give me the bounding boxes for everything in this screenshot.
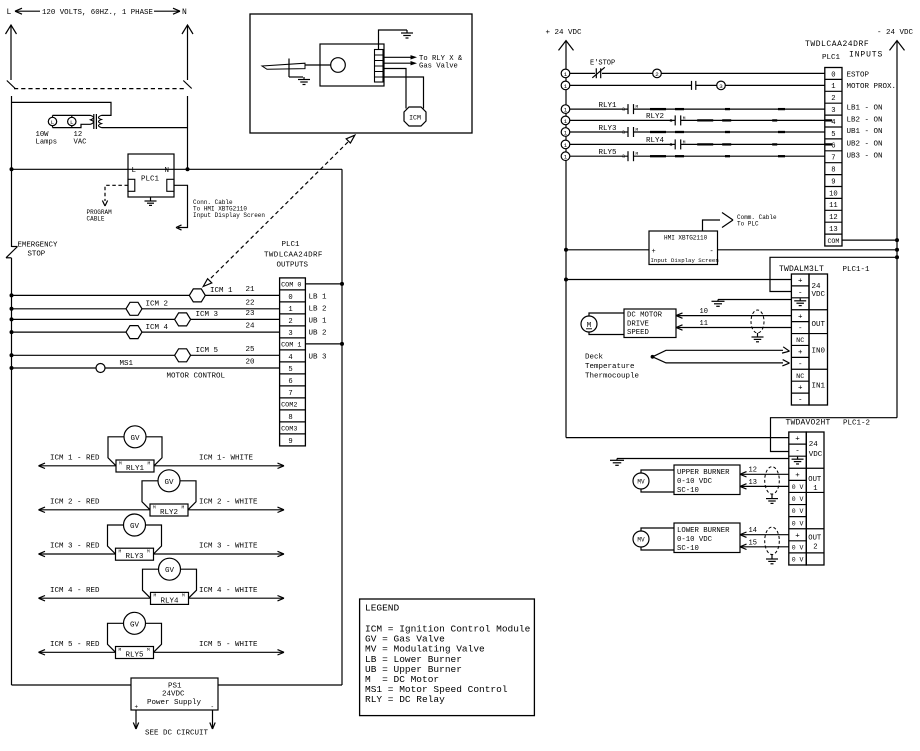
- svg-text:0-10 VDC: 0-10 VDC: [677, 536, 713, 544]
- svg-text:RLY3: RLY3: [125, 553, 144, 561]
- svg-text:IN0: IN0: [812, 347, 826, 355]
- svg-text:OUT: OUT: [808, 535, 822, 543]
- wire +24 rail to AVO plus: [566, 437, 789, 439]
- svg-text:ICM 2 - RED: ICM 2 - RED: [50, 499, 100, 507]
- svg-text:+ 24 VDC: + 24 VDC: [546, 29, 583, 37]
- node circled 3: [717, 81, 726, 90]
- svg-text:21: 21: [246, 286, 256, 294]
- wire ICM 5 - WHITE: [154, 651, 285, 653]
- svg-text:+: +: [798, 349, 803, 357]
- wire 15 to module: [740, 546, 789, 548]
- transformer T1 core: [93, 114, 95, 129]
- terminal strip PLC1 outputs: [280, 278, 306, 446]
- wire outputs common riser: [341, 169, 343, 685]
- wire ICM 2 - RED: [39, 509, 151, 511]
- svg-text:RLY2: RLY2: [160, 509, 178, 517]
- svg-text:TWDALM3LT: TWDALM3LT: [779, 265, 824, 274]
- analog module TWDALM3LT label column: [809, 274, 828, 405]
- svg-text:+: +: [795, 532, 800, 540]
- svg-text:0: 0: [288, 294, 292, 302]
- svg-text:4: 4: [831, 119, 835, 127]
- wire MV bottom UPPER BURNER: [641, 489, 674, 492]
- svg-text:3: 3: [288, 330, 292, 338]
- shield ellipse UPPER BURNER: [765, 467, 780, 494]
- svg-text:RLY1: RLY1: [126, 465, 145, 473]
- wire PROGRAM CABLE dashed: [105, 185, 128, 201]
- ICM hexagon ICM 5: [175, 349, 191, 362]
- relay contact RLY2: [674, 115, 676, 125]
- svg-text:M: M: [147, 647, 150, 653]
- node junction L rail: [10, 167, 14, 171]
- svg-text:UB 2: UB 2: [309, 330, 327, 338]
- ground motor cable shield: [757, 333, 759, 337]
- wire ALM out plus 10: [676, 315, 791, 317]
- svg-text:+: +: [798, 278, 803, 286]
- svg-text:11: 11: [700, 320, 708, 328]
- wire PS1 positive lead: [135, 710, 137, 729]
- svg-text:ICM 2: ICM 2: [146, 301, 169, 309]
- gas valve GV loop RLY3: [108, 525, 124, 554]
- svg-text:NC: NC: [796, 337, 804, 345]
- svg-text:1: 1: [564, 71, 568, 78]
- svg-text:Power Supply: Power Supply: [147, 699, 202, 707]
- svg-text:L: L: [132, 167, 137, 175]
- svg-text:0 V: 0 V: [792, 544, 804, 551]
- svg-text:14: 14: [749, 527, 757, 535]
- svg-text:20: 20: [246, 359, 256, 367]
- wire L rail: [11, 96, 13, 247]
- burner box UPPER BURNER: [674, 465, 740, 495]
- svg-text:GV: GV: [130, 621, 140, 629]
- svg-text:RLY5: RLY5: [599, 149, 618, 157]
- wire MV top LOWER BURNER: [641, 528, 674, 531]
- wire input RLY5: [570, 155, 628, 157]
- svg-text:120 VOLTS, 60HZ., 1 PHASE: 120 VOLTS, 60HZ., 1 PHASE: [42, 9, 153, 17]
- svg-text:ICM 1- WHITE: ICM 1- WHITE: [199, 455, 254, 463]
- svg-text:Input Display Screen: Input Display Screen: [193, 212, 265, 219]
- wire motor to drive top: [589, 313, 624, 316]
- relay contact RLY1: [627, 104, 629, 114]
- relay coil RLY5: [116, 647, 154, 659]
- svg-text:DC MOTOR: DC MOTOR: [627, 312, 663, 320]
- svg-text:M: M: [154, 593, 157, 599]
- wire input RLY4: [570, 143, 675, 145]
- svg-text:GV: GV: [130, 435, 140, 443]
- svg-text:0 V: 0 V: [792, 508, 804, 515]
- wire input row 1 MOTOR PROX: [570, 84, 692, 86]
- svg-text:1: 1: [564, 118, 568, 125]
- svg-text:LB2 - ON: LB2 - ON: [847, 117, 883, 125]
- svg-text:RLY1: RLY1: [599, 102, 618, 110]
- svg-text:7: 7: [288, 390, 292, 398]
- gas valve GV circle RLY2: [158, 470, 180, 492]
- terminal strip PLC1 inputs: [825, 68, 842, 247]
- wire lamp feed: [12, 102, 112, 115]
- wire left box bottom: [12, 684, 132, 686]
- svg-text:+: +: [798, 385, 803, 393]
- svg-text:1: 1: [564, 142, 568, 149]
- legend box: [360, 599, 535, 716]
- wire -24 rail to AVO minus: [771, 418, 898, 452]
- svg-text:L: L: [7, 8, 12, 17]
- svg-text:LOWER BURNER: LOWER BURNER: [677, 527, 730, 535]
- svg-text:1: 1: [564, 130, 568, 137]
- analog module TWDALM3LT terminal strip: [791, 274, 809, 405]
- svg-text:3: 3: [719, 83, 723, 90]
- wire break L: [7, 81, 15, 89]
- svg-text:+: +: [135, 704, 139, 711]
- svg-text:24: 24: [246, 323, 256, 331]
- HMI XBTG2110 display: [649, 231, 718, 265]
- wire ICM 3 - RED: [39, 553, 116, 555]
- svg-text:PLC1: PLC1: [822, 54, 841, 62]
- svg-text:+: +: [798, 313, 803, 321]
- gas valve GV loop RLY5: [108, 623, 124, 652]
- wire lamp bus top: [53, 114, 91, 116]
- switch EMERGENCY STOP: [12, 246, 18, 248]
- wire input RLY1: [570, 108, 628, 110]
- transformer T1 secondary winding: [91, 115, 94, 124]
- node junction N rail: [186, 167, 190, 171]
- ground shield UPPER BURNER: [771, 494, 773, 499]
- svg-text:6: 6: [288, 378, 292, 386]
- svg-text:5: 5: [288, 366, 292, 374]
- svg-text:OUT: OUT: [808, 476, 822, 484]
- svg-text:VDC: VDC: [812, 291, 826, 299]
- svg-text:PLC1-1: PLC1-1: [843, 266, 871, 274]
- igniter circle: [331, 58, 346, 73]
- svg-text:Input Display Screen: Input Display Screen: [651, 257, 719, 264]
- svg-text:RLY2: RLY2: [646, 113, 664, 121]
- relay contact RLY4: [674, 139, 676, 149]
- ground PLC1: [150, 197, 152, 201]
- wire lamp bus bottom: [53, 124, 91, 127]
- wire input RLY2: [570, 119, 675, 121]
- node +24VDC rail arrow: [559, 41, 574, 51]
- svg-text:M: M: [119, 460, 122, 466]
- svg-text:NC: NC: [796, 373, 804, 381]
- svg-text:0 V: 0 V: [792, 484, 804, 491]
- connector strip inset: [375, 50, 384, 83]
- svg-text:1: 1: [813, 485, 817, 493]
- svg-text:MS1: MS1: [120, 360, 134, 368]
- terminal circle RLY4: [561, 140, 570, 149]
- svg-text:5: 5: [831, 131, 835, 139]
- svg-text:Gas Valve: Gas Valve: [419, 62, 458, 70]
- ICM module octagon inset: [404, 107, 426, 126]
- svg-text:RLY3: RLY3: [599, 125, 618, 133]
- svg-text:LB 2: LB 2: [309, 306, 327, 314]
- wire to RLY X arrow: [383, 56, 411, 58]
- wire MV bottom LOWER BURNER: [641, 547, 674, 550]
- svg-text:1: 1: [288, 306, 292, 314]
- svg-text:CABLE: CABLE: [87, 216, 105, 223]
- wire -24VDC rail: [896, 41, 898, 418]
- wire ICM 4 - RED: [39, 597, 151, 599]
- svg-text:UB1 - ON: UB1 - ON: [847, 128, 883, 136]
- svg-text:12: 12: [829, 214, 838, 222]
- svg-text:0: 0: [831, 71, 835, 79]
- svg-text:UB 3: UB 3: [309, 354, 328, 362]
- svg-text:12: 12: [749, 467, 757, 475]
- wire AVO ground: [617, 458, 789, 460]
- wire 120V main run: [12, 168, 343, 170]
- svg-text:EMERGENCY: EMERGENCY: [18, 242, 58, 250]
- svg-text:VDC: VDC: [809, 451, 823, 459]
- wire ICM 1- WHITE: [154, 465, 284, 467]
- svg-text:L: L: [70, 119, 73, 126]
- svg-text:-: -: [798, 361, 803, 369]
- wire RLY4 to input: [681, 143, 825, 145]
- wire 13 to module: [740, 485, 789, 487]
- svg-text:10: 10: [700, 308, 708, 316]
- svg-text:SC-10: SC-10: [677, 487, 699, 495]
- wire ICM 5 - RED: [39, 651, 116, 653]
- svg-text:TWDLCAA24DRF: TWDLCAA24DRF: [264, 252, 323, 260]
- svg-text:25: 25: [246, 346, 256, 354]
- svg-text:22: 22: [246, 299, 255, 307]
- svg-text:MV: MV: [637, 537, 645, 544]
- wire ALM out minus 11: [676, 327, 791, 329]
- svg-text:RLY = DC Relay: RLY = DC Relay: [365, 694, 445, 705]
- transformer T1 primary winding: [99, 115, 102, 127]
- gas valve GV circle RLY5: [124, 612, 146, 634]
- svg-text:9: 9: [831, 178, 835, 186]
- svg-text:ICM 2 - WHITE: ICM 2 - WHITE: [199, 499, 258, 507]
- wire ICM 3 - WHITE: [154, 553, 285, 555]
- ground AVO external: [616, 459, 618, 461]
- svg-text:UPPER BURNER: UPPER BURNER: [677, 469, 730, 477]
- svg-text:ICM 3 - RED: ICM 3 - RED: [50, 543, 100, 551]
- shield ellipse LOWER BURNER: [765, 527, 780, 554]
- svg-text:2: 2: [655, 71, 659, 78]
- svg-text:ICM 4 - RED: ICM 4 - RED: [50, 587, 100, 595]
- igniter electrode probe: [305, 64, 331, 66]
- wire output ICM 5: [12, 354, 280, 356]
- switch E'STOP NC contact: [595, 68, 597, 78]
- wire -24 to ALM minus: [770, 257, 897, 291]
- connector PLC1 program port: [128, 179, 135, 191]
- svg-text:LB1 - ON: LB1 - ON: [847, 105, 883, 113]
- svg-text:COM2: COM2: [281, 402, 297, 410]
- svg-text:-: -: [798, 325, 803, 333]
- svg-text:COM 0: COM 0: [281, 282, 301, 290]
- gas valve GV loop RLY4: [143, 569, 159, 598]
- wire output ICM 1: [12, 294, 280, 296]
- svg-text:2: 2: [813, 544, 817, 552]
- svg-text:0 V: 0 V: [792, 496, 804, 503]
- svg-text:HMI XBTG2110: HMI XBTG2110: [664, 235, 708, 242]
- svg-text:4: 4: [288, 354, 292, 362]
- svg-text:SPEED: SPEED: [627, 329, 650, 337]
- ground igniter: [303, 77, 305, 80]
- svg-text:ICM 5 - WHITE: ICM 5 - WHITE: [199, 641, 258, 649]
- terminal circle RLY5: [561, 152, 570, 161]
- wire 12 to module: [740, 473, 789, 475]
- svg-text:RLY4: RLY4: [646, 137, 665, 145]
- svg-text:+: +: [795, 472, 800, 480]
- svg-text:TWDAVO2HT: TWDAVO2HT: [786, 419, 831, 428]
- svg-text:GV: GV: [130, 523, 140, 531]
- svg-text:INPUTS: INPUTS: [849, 51, 883, 60]
- svg-text:GV: GV: [164, 479, 174, 487]
- wire COM 0 to riser: [305, 283, 342, 285]
- svg-text:M: M: [153, 504, 156, 510]
- svg-text:-: -: [798, 397, 803, 405]
- ICM hexagon ICM 4: [126, 326, 142, 339]
- svg-text:13: 13: [829, 226, 838, 234]
- svg-text:UB 1: UB 1: [309, 318, 328, 326]
- wire transformer secondary to N rail: [102, 127, 188, 129]
- svg-text:+: +: [795, 436, 800, 444]
- ground AVO internal: [797, 457, 799, 460]
- svg-text:M: M: [147, 549, 150, 555]
- gas valve GV circle RLY4: [159, 558, 181, 580]
- wire 14 to module: [740, 534, 789, 536]
- terminal circle RLY3: [561, 128, 570, 137]
- wire PS1 negative lead: [212, 710, 214, 729]
- node circled 2: [653, 69, 662, 78]
- lamp L1 10W: [52, 115, 54, 117]
- svg-text:- 24 VDC: - 24 VDC: [877, 29, 914, 37]
- lamp L2 10W: [71, 115, 73, 117]
- svg-text:RLY4: RLY4: [160, 597, 179, 605]
- svg-text:0-10 VDC: 0-10 VDC: [677, 478, 713, 486]
- svg-text:15: 15: [749, 540, 757, 548]
- analog module TWDAVO2HT terminal strip: [789, 432, 807, 565]
- svg-text:PS1: PS1: [168, 683, 182, 691]
- modulating valve MV LOWER BURNER: [633, 531, 649, 547]
- svg-text:1: 1: [564, 154, 568, 161]
- gas valve GV loop RLY2: [142, 481, 158, 510]
- svg-text:N: N: [182, 8, 187, 17]
- svg-text:COM: COM: [827, 238, 839, 245]
- svg-text:LEGEND: LEGEND: [365, 603, 400, 614]
- svg-text:0 V: 0 V: [792, 520, 804, 527]
- svg-text:N: N: [165, 167, 170, 175]
- gas valve GV circle RLY1: [124, 426, 146, 448]
- svg-text:10: 10: [829, 190, 838, 198]
- wire COM to -24 rail: [842, 239, 897, 241]
- svg-text:7: 7: [831, 155, 835, 163]
- svg-text:ICM 3: ICM 3: [196, 311, 219, 319]
- svg-text:a: a: [622, 154, 625, 160]
- svg-text:SC-10: SC-10: [677, 545, 699, 553]
- relay contact RLY3: [627, 127, 629, 137]
- svg-text:-: -: [710, 248, 714, 256]
- svg-text:COM 1: COM 1: [281, 342, 301, 350]
- svg-text:-: -: [798, 289, 803, 297]
- terminal circle RLY2: [561, 116, 570, 125]
- wire motor to drive bottom: [589, 332, 624, 335]
- power supply PS1: [131, 678, 218, 710]
- wire ICM 4 - WHITE: [189, 597, 285, 599]
- wire ALM ground: [718, 299, 791, 301]
- svg-text:RLY5: RLY5: [125, 652, 144, 660]
- wire conn cable to HMI: [174, 185, 188, 227]
- svg-text:ICM 3 - WHITE: ICM 3 - WHITE: [199, 543, 258, 551]
- wire N rail: [187, 96, 189, 169]
- svg-text:11: 11: [829, 202, 838, 210]
- svg-text:To PLC: To PLC: [737, 221, 759, 228]
- relay coil RLY1: [116, 460, 154, 472]
- svg-text:PLC1: PLC1: [141, 176, 160, 184]
- svg-text:1: 1: [564, 83, 568, 90]
- svg-text:+: +: [652, 248, 656, 256]
- wire HMI plus to +24 rail: [566, 249, 649, 251]
- burner box inset: [320, 44, 384, 86]
- wire +24VDC rail: [565, 41, 567, 438]
- svg-text:1: 1: [564, 107, 568, 114]
- svg-text:0 V: 0 V: [792, 557, 804, 564]
- ground ALM internal: [799, 298, 801, 301]
- gas valve GV loop RLY1: [108, 437, 124, 466]
- svg-text:24: 24: [812, 283, 822, 291]
- svg-text:STOP: STOP: [28, 251, 46, 259]
- connector PLC1 comm port: [167, 179, 174, 191]
- wire COM 1 to riser: [305, 343, 342, 345]
- svg-text:Lamps: Lamps: [36, 139, 58, 147]
- PLC PLC1 power terminals: [128, 154, 174, 197]
- svg-text:MOTOR PROX.: MOTOR PROX.: [847, 83, 897, 91]
- svg-text:2: 2: [288, 318, 292, 326]
- ICM hexagon ICM 1: [189, 289, 205, 302]
- svg-text:MV: MV: [637, 479, 645, 486]
- svg-text:VAC: VAC: [74, 139, 88, 147]
- wire output ICM 3: [12, 318, 280, 320]
- svg-text:UB3 - ON: UB3 - ON: [847, 153, 883, 161]
- wire input RLY3: [570, 131, 628, 133]
- svg-text:M: M: [148, 460, 151, 466]
- svg-text:-: -: [211, 704, 215, 711]
- thermocouple deck temperature: [651, 355, 655, 359]
- ground shield LOWER BURNER: [771, 555, 773, 560]
- wire RLY3 to input: [634, 131, 825, 133]
- wire input row 0 ESTOP: [570, 72, 595, 74]
- svg-text:1: 1: [831, 83, 835, 91]
- svg-text:a: a: [670, 118, 673, 124]
- svg-text:24VDC: 24VDC: [162, 691, 185, 699]
- ICM hexagon ICM 3: [175, 313, 191, 326]
- wire connector to ground: [379, 30, 408, 50]
- svg-text:8: 8: [288, 414, 292, 422]
- svg-text:2: 2: [831, 95, 835, 103]
- motor speed box DC MOTOR DRIVE SPEED: [624, 309, 676, 338]
- svg-text:DRIVE: DRIVE: [627, 321, 649, 329]
- motor speed control MS1 circle: [96, 364, 105, 373]
- svg-text:M: M: [182, 504, 185, 510]
- shield ellipse motor cable: [751, 310, 764, 333]
- contact motor prox: [691, 81, 693, 90]
- wire to gas valve arrow: [383, 62, 411, 64]
- svg-text:E'STOP: E'STOP: [590, 60, 615, 68]
- svg-text:13: 13: [749, 479, 757, 487]
- svg-text:ICM 5: ICM 5: [196, 347, 219, 355]
- wire ICM 2 - WHITE: [188, 509, 284, 511]
- svg-text:a: a: [670, 142, 673, 148]
- terminal circle RLY1: [561, 105, 570, 114]
- svg-text:ICM 5 - RED: ICM 5 - RED: [50, 641, 100, 649]
- svg-text:-: -: [795, 448, 800, 456]
- relay coil RLY4: [151, 592, 189, 604]
- svg-text:SEE DC CIRCUIT: SEE DC CIRCUIT: [145, 730, 209, 738]
- svg-text:PLC1: PLC1: [282, 241, 301, 249]
- svg-text:M: M: [182, 593, 185, 599]
- wire connector to ICM right: [383, 77, 424, 109]
- relay coil RLY3: [116, 548, 154, 560]
- wire RLY5 to input: [634, 155, 825, 157]
- gas valve GV circle RLY3: [124, 514, 146, 536]
